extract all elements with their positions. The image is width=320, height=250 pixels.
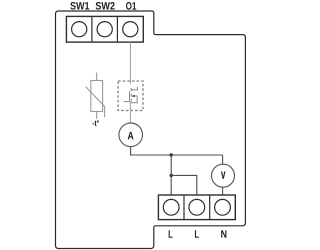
label -t&#176; — [93, 120, 99, 126]
mosfet body arrow — [132, 95, 135, 97]
thermistor -t° — [86, 73, 105, 120]
ammeter letter A — [128, 132, 134, 140]
wire switch to ammeter — [129, 103, 131, 123]
top block divider 2 — [116, 16, 118, 42]
wire O1 to switch box — [129, 42, 131, 84]
terminal O1 circle — [123, 22, 138, 37]
device body outline — [56, 11, 246, 249]
top terminal block — [66, 16, 143, 42]
junction dot 2 — [170, 174, 173, 177]
label N — [221, 230, 226, 238]
terminal L1 circle — [163, 199, 179, 215]
wire ammeter to bus — [131, 147, 223, 155]
wire to terminal L1 — [170, 155, 172, 195]
bottom block divider 2 — [209, 195, 211, 220]
label SW2 — [96, 2, 115, 10]
label SW1 — [70, 2, 89, 10]
wire voltmeter to terminal N — [222, 187, 224, 195]
bottom block divider 1 — [183, 195, 185, 220]
wire bus to voltmeter — [222, 155, 224, 164]
switch dashed box — [118, 81, 143, 111]
label L2 — [195, 230, 199, 238]
top block divider 1 — [91, 16, 93, 42]
terminal N circle — [215, 199, 231, 215]
terminal SW2 circle — [97, 22, 112, 37]
terminal L2 circle — [189, 199, 205, 215]
mosfet Q1 — [124, 87, 138, 103]
bottom terminal block — [158, 195, 235, 220]
label L1 — [169, 230, 173, 238]
junction dot 1 — [170, 153, 173, 156]
wire branch to terminal L2 — [171, 175, 197, 195]
voltmeter letter V — [221, 172, 225, 179]
label O1 — [126, 2, 136, 10]
ammeter A — [119, 123, 143, 147]
voltmeter V — [212, 164, 235, 187]
terminal SW1 circle — [72, 22, 87, 37]
